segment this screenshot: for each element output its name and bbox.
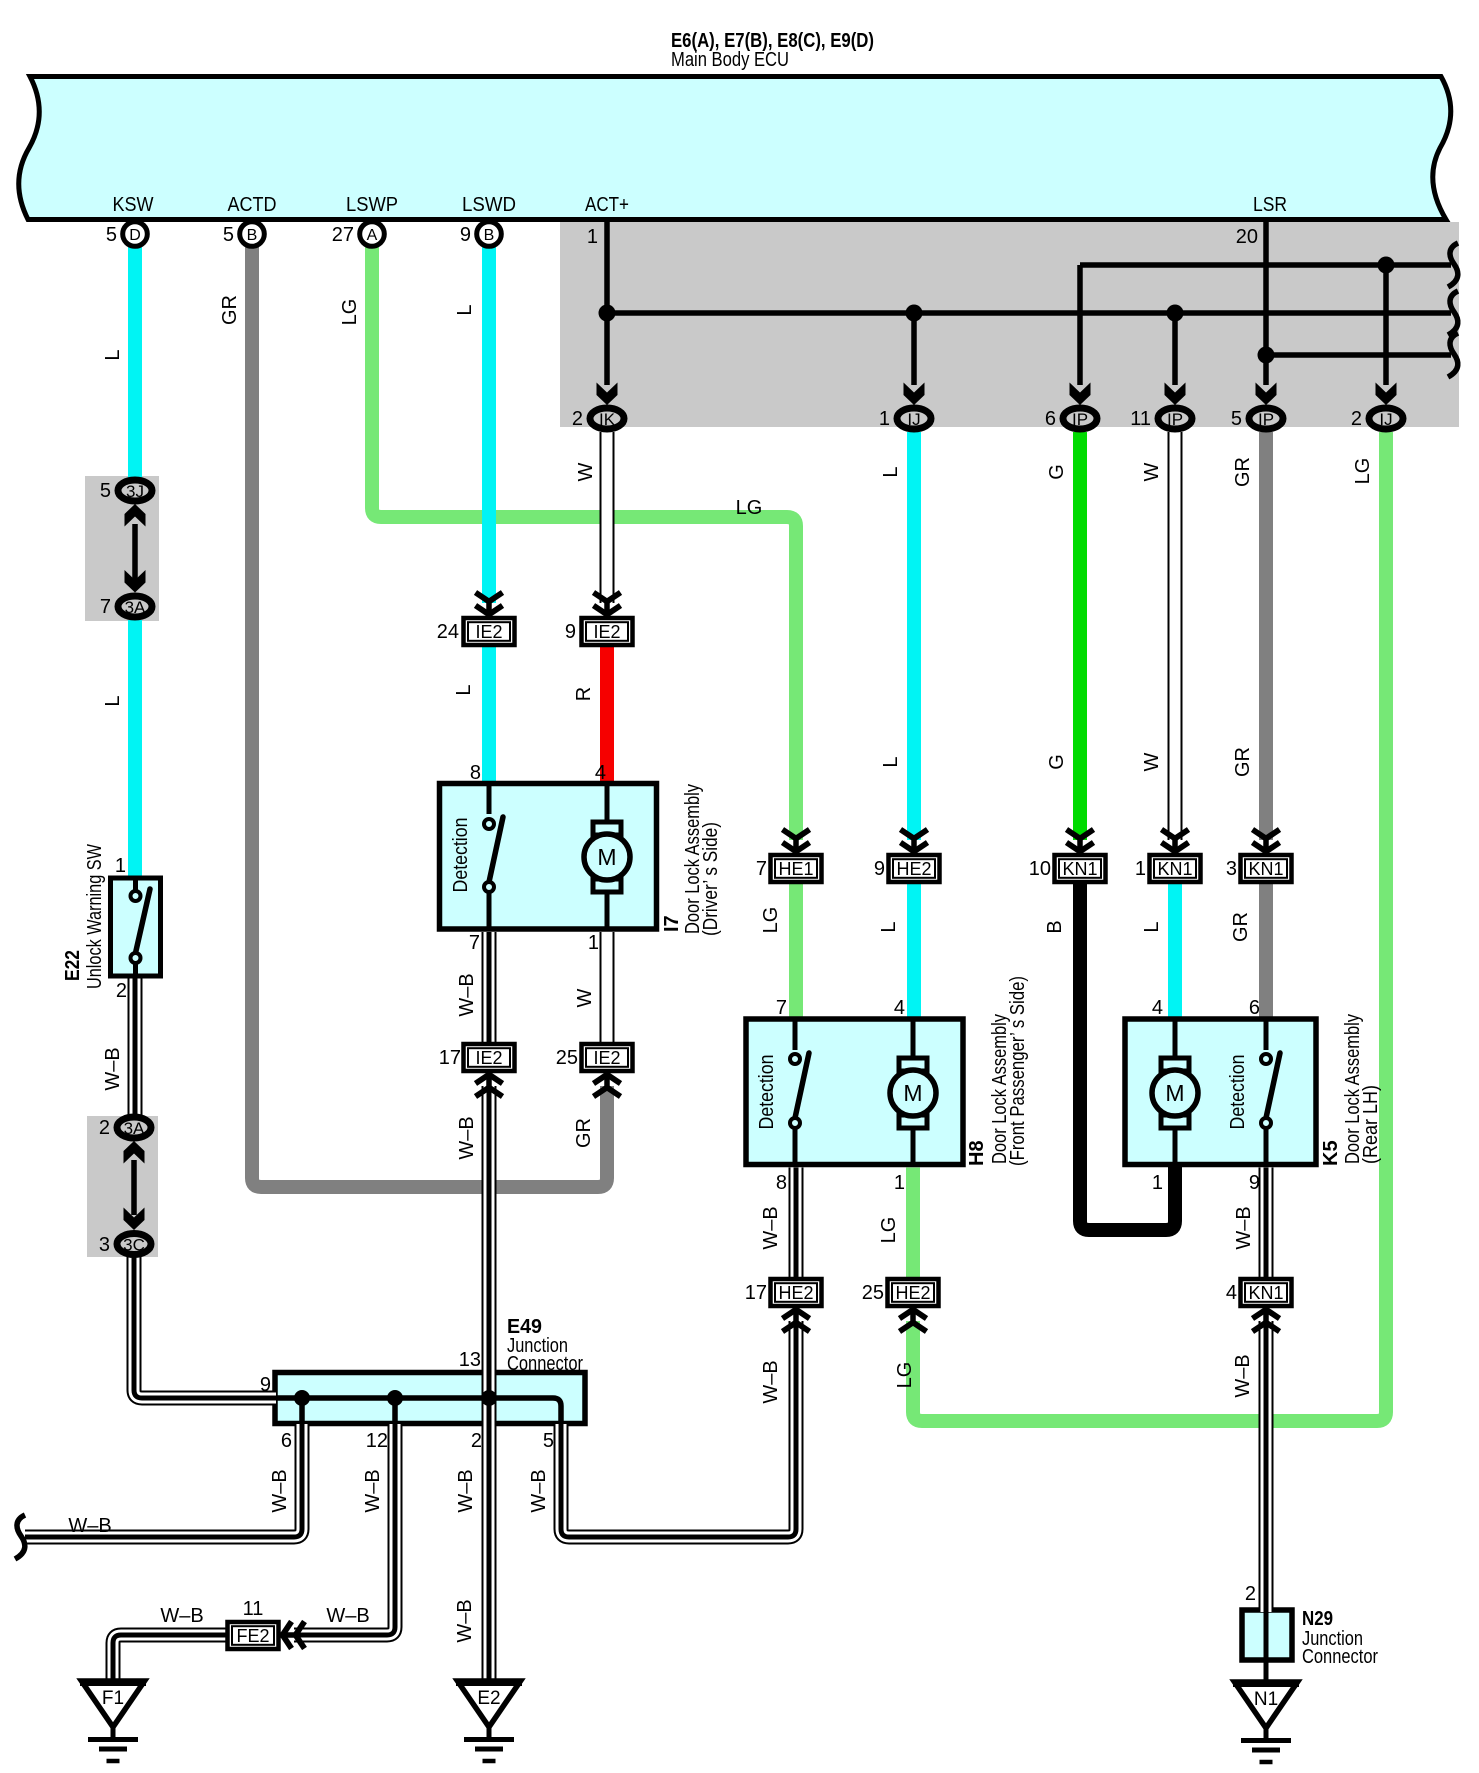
svg-text:3: 3 (1226, 858, 1237, 880)
svg-text:ACTD: ACTD (228, 194, 277, 216)
svg-text:G: G (1046, 464, 1068, 480)
svg-text:KN1: KN1 (1062, 859, 1097, 879)
svg-text:HE2: HE2 (778, 1283, 813, 1303)
svg-text:LSR: LSR (1253, 194, 1287, 216)
svg-text:6: 6 (1249, 997, 1260, 1019)
svg-text:Detection: Detection (1227, 1055, 1249, 1130)
svg-text:Connector: Connector (507, 1353, 583, 1375)
svg-text:5: 5 (1231, 408, 1242, 430)
svg-text:D: D (129, 227, 141, 244)
svg-text:ACT+: ACT+ (585, 194, 629, 216)
svg-text:7: 7 (469, 932, 480, 954)
svg-text:W–B: W–B (456, 973, 478, 1016)
svg-text:N29: N29 (1302, 1608, 1333, 1630)
svg-text:L: L (1141, 921, 1163, 932)
svg-text:4: 4 (595, 762, 606, 784)
svg-text:W–B: W–B (456, 1116, 478, 1159)
svg-text:LG: LG (760, 907, 782, 934)
svg-text:(Front Passenger’ s Side): (Front Passenger’ s Side) (1007, 976, 1029, 1166)
svg-text:FE2: FE2 (236, 1626, 269, 1646)
svg-text:KN1: KN1 (1157, 859, 1192, 879)
svg-text:W: W (574, 988, 596, 1007)
svg-text:LG: LG (1352, 458, 1374, 485)
svg-text:L: L (102, 695, 124, 706)
svg-text:2: 2 (471, 1430, 482, 1452)
svg-text:GR: GR (1232, 457, 1254, 487)
svg-text:5: 5 (100, 480, 111, 502)
svg-text:LG: LG (894, 1362, 916, 1389)
svg-text:11: 11 (243, 1598, 264, 1620)
svg-text:Detection: Detection (450, 818, 472, 893)
svg-text:GR: GR (573, 1118, 595, 1148)
svg-text:GR: GR (1230, 912, 1252, 942)
svg-text:5: 5 (543, 1430, 554, 1452)
svg-text:GR: GR (1232, 747, 1254, 777)
svg-text:W–B: W–B (269, 1469, 291, 1512)
svg-text:IK: IK (599, 410, 616, 429)
svg-text:1: 1 (588, 932, 599, 954)
svg-text:W–B: W–B (102, 1047, 124, 1090)
svg-text:W–B: W–B (326, 1605, 369, 1627)
svg-text:6: 6 (281, 1430, 292, 1452)
svg-text:L: L (880, 466, 902, 477)
svg-text:LG: LG (878, 1217, 900, 1244)
svg-text:7: 7 (776, 997, 787, 1019)
svg-text:L: L (454, 304, 476, 315)
svg-text:5: 5 (223, 224, 234, 246)
svg-text:2: 2 (1351, 408, 1362, 430)
svg-text:M: M (903, 1080, 922, 1106)
svg-text:M: M (1165, 1080, 1184, 1106)
svg-text:W: W (1141, 752, 1163, 771)
svg-text:IE2: IE2 (475, 622, 502, 642)
svg-text:17: 17 (439, 1047, 461, 1069)
svg-text:(Rear LH): (Rear LH) (1360, 1085, 1382, 1164)
svg-text:HE2: HE2 (896, 859, 931, 879)
svg-text:4: 4 (894, 997, 905, 1019)
svg-text:L: L (102, 349, 124, 360)
svg-text:A: A (367, 227, 378, 244)
svg-text:IP: IP (1167, 410, 1183, 429)
svg-text:9: 9 (260, 1374, 271, 1396)
svg-text:LSWD: LSWD (462, 194, 516, 216)
svg-text:KSW: KSW (113, 194, 154, 216)
svg-text:10: 10 (1029, 858, 1051, 880)
svg-text:2: 2 (1245, 1583, 1256, 1605)
svg-text:W–B: W–B (362, 1469, 384, 1512)
svg-text:HE1: HE1 (778, 859, 813, 879)
svg-text:1: 1 (587, 226, 598, 248)
svg-text:LG: LG (736, 497, 763, 519)
svg-text:B: B (484, 227, 495, 244)
svg-text:9: 9 (565, 621, 576, 643)
svg-text:N1: N1 (1254, 1689, 1278, 1710)
svg-text:HE2: HE2 (895, 1283, 930, 1303)
svg-text:B: B (247, 227, 258, 244)
svg-text:4: 4 (1152, 997, 1163, 1019)
svg-text:3A: 3A (124, 1119, 145, 1138)
svg-text:W–B: W–B (160, 1605, 203, 1627)
svg-text:B: B (1044, 920, 1066, 933)
svg-text:1: 1 (894, 1172, 905, 1194)
svg-text:20: 20 (1236, 226, 1258, 248)
svg-text:1: 1 (1152, 1172, 1163, 1194)
svg-text:6: 6 (1045, 408, 1056, 430)
svg-text:3: 3 (99, 1234, 110, 1256)
svg-text:5: 5 (106, 224, 117, 246)
svg-text:12: 12 (366, 1430, 388, 1452)
svg-text:8: 8 (470, 762, 481, 784)
svg-text:3J: 3J (126, 482, 144, 501)
svg-text:W–B: W–B (454, 1599, 476, 1642)
svg-text:IE2: IE2 (475, 1048, 502, 1068)
svg-text:W–B: W–B (455, 1469, 477, 1512)
svg-text:13: 13 (459, 1349, 481, 1371)
svg-text:25: 25 (862, 1282, 884, 1304)
svg-text:4: 4 (1226, 1282, 1237, 1304)
svg-text:W–B: W–B (528, 1469, 550, 1512)
svg-text:Connector: Connector (1302, 1646, 1378, 1668)
svg-text:9: 9 (460, 224, 471, 246)
svg-text:L: L (878, 921, 900, 932)
svg-text:W–B: W–B (1233, 1206, 1255, 1249)
svg-text:W–B: W–B (760, 1360, 782, 1403)
svg-text:W: W (575, 462, 597, 481)
svg-text:IJ: IJ (1379, 410, 1392, 429)
svg-text:L: L (453, 684, 475, 695)
svg-text:IE2: IE2 (593, 622, 620, 642)
svg-text:W: W (1141, 462, 1163, 481)
svg-text:K5: K5 (1320, 1140, 1342, 1166)
svg-text:LG: LG (339, 299, 361, 326)
svg-text:2: 2 (99, 1117, 110, 1139)
svg-text:1: 1 (879, 408, 890, 430)
svg-text:KN1: KN1 (1248, 859, 1283, 879)
svg-text:3C: 3C (123, 1236, 145, 1255)
svg-text:IE2: IE2 (593, 1048, 620, 1068)
svg-text:2: 2 (572, 408, 583, 430)
svg-text:F1: F1 (102, 1688, 124, 1709)
svg-text:W–B: W–B (760, 1206, 782, 1249)
svg-text:GR: GR (219, 295, 241, 325)
svg-text:IP: IP (1072, 410, 1088, 429)
svg-text:9: 9 (874, 858, 885, 880)
svg-text:24: 24 (437, 621, 459, 643)
svg-text:L: L (880, 756, 902, 767)
svg-text:25: 25 (556, 1047, 578, 1069)
svg-text:7: 7 (100, 596, 111, 618)
svg-text:E22: E22 (62, 950, 84, 981)
svg-text:27: 27 (332, 224, 354, 246)
svg-text:3A: 3A (125, 598, 146, 617)
svg-text:Detection: Detection (756, 1055, 778, 1130)
svg-text:I7: I7 (661, 915, 683, 932)
svg-text:G: G (1046, 754, 1068, 770)
svg-text:IP: IP (1258, 410, 1274, 429)
svg-text:R: R (573, 687, 595, 701)
svg-text:Unlock Warning SW: Unlock Warning SW (84, 844, 106, 989)
svg-text:W–B: W–B (1232, 1354, 1254, 1397)
svg-text:11: 11 (1130, 408, 1151, 430)
svg-text:M: M (597, 844, 616, 870)
svg-text:W–B: W–B (68, 1515, 111, 1537)
svg-text:17: 17 (745, 1282, 767, 1304)
svg-text:8: 8 (776, 1172, 787, 1194)
svg-text:1: 1 (115, 855, 126, 877)
svg-text:(Driver’ s Side): (Driver’ s Side) (700, 822, 722, 936)
svg-text:IJ: IJ (907, 410, 920, 429)
svg-text:9: 9 (1249, 1172, 1260, 1194)
svg-text:2: 2 (116, 980, 127, 1002)
svg-text:1: 1 (1135, 858, 1146, 880)
svg-text:Main Body ECU: Main Body ECU (671, 49, 789, 71)
svg-text:KN1: KN1 (1248, 1283, 1283, 1303)
svg-text:LSWP: LSWP (346, 194, 398, 216)
svg-text:E2: E2 (477, 1688, 500, 1709)
svg-text:H8: H8 (966, 1140, 988, 1166)
svg-text:7: 7 (756, 858, 767, 880)
